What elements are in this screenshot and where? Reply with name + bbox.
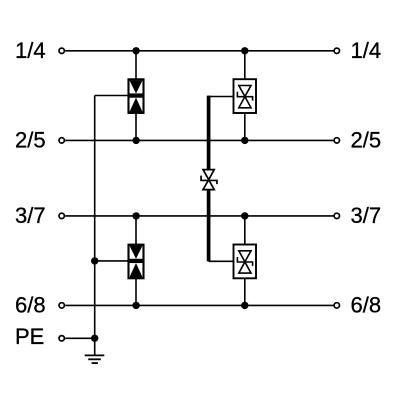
terminal 1/4 right xyxy=(334,48,339,53)
wire line 1/4 xyxy=(65,50,333,52)
wire GDT F1 bottom lead xyxy=(244,113,246,140)
wire TVS D2 bottom lead xyxy=(135,279,137,306)
wire TVS D1 top lead xyxy=(135,51,137,79)
suppressor diode D2 (bidirectional TVS, filled) xyxy=(129,245,144,279)
svg-text:1/4: 1/4 xyxy=(15,38,46,63)
junction dot 6/8 x F2 xyxy=(241,302,248,309)
terminal 3/7 left xyxy=(59,213,64,218)
svg-text:2/5: 2/5 xyxy=(15,128,46,153)
terminal 6/8 right xyxy=(334,303,339,308)
wire GDT F2 top lead xyxy=(244,216,246,245)
suppressor diode D3 (bidirectional zener, series) xyxy=(201,170,217,190)
wire line 3/7 xyxy=(65,215,333,217)
terminal 2/5 left xyxy=(59,138,64,143)
wire D1 centre tap xyxy=(95,95,129,97)
wire GDT F1 top lead xyxy=(244,51,246,79)
wire F2 tap to series line xyxy=(209,260,234,262)
wire line 2/5 xyxy=(65,139,333,141)
svg-text:2/5: 2/5 xyxy=(351,128,382,153)
junction dot 1/4 x F1 xyxy=(241,47,248,54)
junction dot PE drop x D2 tap xyxy=(91,257,98,264)
wire GDT F2 bottom lead xyxy=(244,278,246,305)
ground symbol xyxy=(85,355,105,363)
wire ground lead xyxy=(94,338,96,355)
svg-text:PE: PE xyxy=(15,324,44,349)
svg-text:6/8: 6/8 xyxy=(351,293,382,318)
gas discharge tube F1 (boxed bidirectional arrester) xyxy=(234,79,257,113)
svg-text:3/7: 3/7 xyxy=(15,203,46,228)
junction dot 6/8 x D2 xyxy=(132,302,139,309)
terminal 3/7 right xyxy=(334,213,339,218)
terminal PE left xyxy=(59,336,64,341)
junction dot 3/7 x D2 xyxy=(132,212,139,219)
junction dot 1/4 x D1 xyxy=(132,47,139,54)
wire series line upper (thick) xyxy=(207,96,211,170)
terminal 6/8 left xyxy=(59,303,64,308)
terminal 1/4 left xyxy=(59,48,64,53)
junction dot 2/5 x F1 xyxy=(241,137,248,144)
terminal 2/5 right xyxy=(334,138,339,143)
junction dot 3/7 x F2 xyxy=(241,212,248,219)
suppressor diode D1 (bidirectional TVS, filled) xyxy=(129,79,144,113)
wire series line lower (thick) xyxy=(207,190,211,262)
wire D2 centre tap xyxy=(95,260,129,262)
svg-text:1/4: 1/4 xyxy=(351,38,382,63)
junction dot PE line xyxy=(91,335,98,342)
svg-text:6/8: 6/8 xyxy=(15,293,46,318)
wire F1 tap to series line xyxy=(209,96,234,98)
wire line 6/8 xyxy=(65,304,333,306)
wire TVS D1 bottom lead xyxy=(135,114,137,141)
svg-text:3/7: 3/7 xyxy=(351,203,382,228)
junction dot 2/5 x D1 xyxy=(132,137,139,144)
wire PE drop (vertical) xyxy=(94,96,96,339)
wire TVS D2 top lead xyxy=(135,216,137,245)
wire PE xyxy=(65,337,95,339)
gas discharge tube F2 (boxed bidirectional arrester) xyxy=(234,245,257,279)
